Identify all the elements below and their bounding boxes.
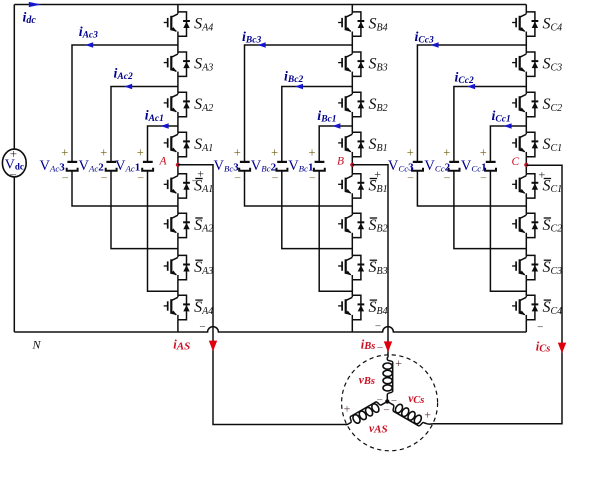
capacitor VBc1 plates (straight top plate, cup-shaped bottom plate) — [314, 162, 325, 171]
plus sign of capacitor VAc2 — [100, 146, 107, 160]
label SB3 — [369, 56, 388, 74]
capacitor VAc1 plates (straight top plate, cup-shaped bottom plate) — [142, 162, 153, 171]
node A (red dot) — [176, 163, 180, 167]
label SA3 — [194, 56, 213, 74]
label iBs — [361, 337, 376, 352]
minus sign of capacitor VBc2 — [271, 171, 278, 183]
IGBT switch SA3 with antiparallel diode — [164, 52, 190, 76]
current arrow iBc2 (blue, pointing left) — [295, 84, 303, 89]
svg-text:+: + — [480, 146, 487, 160]
svg-text:–: – — [377, 342, 384, 353]
plus sign of capacitor VCc3 — [407, 146, 414, 160]
node B (red dot) — [350, 163, 354, 167]
motor stator boundary (dashed circle) — [342, 355, 438, 451]
svg-text:iAS: iAS — [173, 338, 190, 353]
IGBT switch SC4 with antiparallel diode — [512, 12, 538, 36]
IGBT switch S&#772;C1 with antiparallel diode — [512, 174, 538, 198]
label VAc1 — [115, 158, 140, 174]
current arrow idc on top bus (blue, pointing right) — [29, 2, 41, 7]
plus sign of capacitor VCc2 — [443, 146, 450, 160]
minus sign of Vdc source — [9, 166, 17, 180]
minus sign of capacitor VAc2 — [100, 171, 107, 183]
plus sign of capacitor VBc2 — [271, 146, 278, 160]
label S&#772;B4 — [369, 299, 388, 317]
plus sign of capacitor VAc1 — [137, 146, 144, 160]
wire flying capacitor Ac2 branch (top tap y=86.5, bottom tap y=248.6) — [111, 87, 178, 249]
svg-text:A: A — [159, 156, 168, 168]
plus sign of capacitor VBc3 — [234, 146, 241, 160]
label iBc2 — [284, 70, 303, 86]
IGBT switch SB1 with antiparallel diode — [338, 132, 364, 156]
node C (red dot) — [524, 163, 528, 167]
current arrow iCs (red, pointing down) — [558, 343, 566, 354]
label iCc1 — [492, 109, 511, 125]
minus sign of winding vBs at star point — [376, 395, 383, 406]
label VCc1 — [461, 158, 487, 174]
label SA4 — [194, 16, 213, 34]
wire flying capacitor Bc1 branch (top tap y=126, bottom tap y=291.3) — [319, 126, 352, 291]
current arrow iCc1 (blue, pointing left) — [504, 123, 512, 128]
IGBT switch SC3 with antiparallel diode — [512, 52, 538, 76]
label VAc2 — [79, 158, 105, 174]
capacitor VAc3 plates (straight top plate, cup-shaped bottom plate) — [67, 162, 78, 171]
wire from Vdc source down to bottom bus — [13, 177, 15, 332]
IGBT switch S&#772;B2 with antiparallel diode — [338, 213, 364, 237]
label S&#772;C1 — [543, 177, 563, 195]
IGBT switch S&#772;C2 with antiparallel diode — [512, 213, 538, 237]
IGBT switch SB3 with antiparallel diode — [338, 52, 364, 76]
minus sign of capacitor VAc1 — [137, 171, 144, 183]
wire flying capacitor Cc2 branch (top tap y=86.5, bottom tap y=248.6) — [454, 87, 526, 249]
label SA1 — [194, 136, 213, 154]
minus sign of capacitor VBc3 — [234, 171, 241, 183]
label SB4 — [369, 16, 388, 34]
capacitor VCc1 plates (straight top plate, cup-shaped bottom plate) — [485, 162, 496, 171]
capacitor VCc3 plates (straight top plate, cup-shaped bottom plate) — [412, 162, 423, 171]
svg-text:+: + — [271, 146, 278, 160]
label S&#772;A3 — [194, 259, 213, 277]
IGBT switch S&#772;A2 with antiparallel diode — [164, 213, 190, 237]
wire top DC bus from Vdc to leg C — [14, 4, 526, 6]
minus sign of winding vCs at star point — [391, 395, 398, 406]
IGBT switch S&#772;A4 with antiparallel diode — [164, 295, 190, 319]
label VBc1 — [288, 158, 313, 174]
svg-text:+: + — [100, 146, 107, 160]
label iCc2 — [455, 71, 474, 87]
minus sign of capacitor VAc3 — [61, 171, 68, 183]
minus sign of winding vAs at star point — [383, 405, 390, 416]
label S&#772;B2 — [369, 217, 388, 235]
label SB1 — [369, 136, 388, 154]
svg-text:–: – — [370, 176, 377, 187]
wire phase B leg rail segments — [351, 5, 353, 333]
label S&#772;B3 — [369, 259, 388, 277]
wire phase C output: node C right then down and left to motor winding vCs — [433, 165, 562, 424]
minus sign of capacitor VCc1 — [480, 171, 487, 183]
svg-text:+: + — [309, 146, 316, 160]
IGBT switch SC1 with antiparallel diode — [512, 132, 538, 156]
label VCc3 — [388, 158, 414, 174]
IGBT switch S&#772;A1 with antiparallel diode — [164, 174, 190, 198]
svg-text:vCs: vCs — [408, 393, 424, 406]
label vAS — [369, 423, 388, 436]
plus sign near node A — [197, 167, 204, 181]
wire flying capacitor Bc2 branch (top tap y=86.5, bottom tap y=248.6) — [282, 87, 353, 249]
current arrow iCc3 (blue, pointing left) — [431, 42, 439, 47]
plus sign of capacitor VAc3 — [61, 146, 68, 160]
label VBc2 — [251, 158, 277, 174]
label iBc3 — [242, 30, 261, 46]
plus sign of capacitor VBc1 — [309, 146, 316, 160]
label VBc3 — [214, 158, 240, 174]
svg-text:vBs: vBs — [359, 374, 375, 387]
svg-text:vAS: vAS — [369, 423, 388, 436]
wire from top bus down to Vdc source — [13, 5, 15, 150]
IGBT switch SC2 with antiparallel diode — [512, 92, 538, 116]
IGBT switch S&#772;C3 with antiparallel diode — [512, 255, 538, 279]
label iAS — [173, 338, 190, 353]
plus sign of capacitor VCc1 — [480, 146, 487, 160]
wire phase B output: node B right then down to motor winding vBs — [352, 165, 388, 358]
minus sign near node A lower — [191, 176, 198, 187]
IGBT switch S&#772;B3 with antiparallel diode — [338, 255, 364, 279]
label iBc1 — [317, 109, 336, 125]
svg-text:–: – — [199, 321, 206, 332]
motor winding vAs (lower-left coil) — [346, 397, 389, 428]
current arrow iAS (red, pointing down) — [209, 341, 217, 352]
IGBT switch SB2 with antiparallel diode — [338, 92, 364, 116]
plus sign near node B — [374, 167, 381, 181]
motor winding vCs (lower-right coil) — [385, 398, 428, 429]
label VAc3 — [40, 158, 66, 174]
svg-text:–: – — [537, 322, 544, 333]
minus sign of capacitor VCc2 — [443, 171, 450, 183]
wire flying capacitor Ac3 branch (top tap y=45, bottom tap y=206) — [72, 45, 178, 206]
wire bottom DC bus (node N) with crossover hops over phase A and B output lines — [14, 327, 526, 332]
minus sign at bottom of leg C — [537, 322, 544, 333]
label S&#772;A1 — [194, 177, 213, 195]
plus sign of Vdc source — [10, 146, 17, 161]
svg-text:+: + — [61, 146, 68, 160]
label vBs — [359, 374, 375, 387]
current arrow iBc1 (blue, pointing left) — [332, 123, 340, 128]
wire stub from vAs coil to phase A wire — [346, 423, 350, 424]
IGBT switch S&#772;B4 with antiparallel diode — [338, 295, 364, 319]
label iAc2 — [114, 66, 133, 82]
svg-text:C: C — [512, 156, 520, 168]
svg-text:+: + — [395, 356, 402, 370]
current arrow iAc3 (blue, pointing left) — [85, 42, 93, 47]
DC source Vdc (ellipse) — [2, 149, 26, 177]
IGBT switch SB4 with antiparallel diode — [338, 12, 364, 36]
IGBT switch S&#772;A3 with antiparallel diode — [164, 255, 190, 279]
minus sign of capacitor VCc3 — [407, 171, 414, 183]
motor winding vBs (vertical coil) — [383, 357, 393, 401]
label S&#772;A4 — [194, 299, 213, 317]
svg-text:+: + — [10, 146, 17, 161]
svg-text:N: N — [32, 338, 42, 352]
label iAc3 — [79, 25, 98, 41]
capacitor VBc2 plates (straight top plate, cup-shaped bottom plate) — [277, 162, 288, 171]
svg-text:+: + — [344, 402, 351, 416]
wire flying capacitor Cc1 branch (top tap y=126, bottom tap y=291.3) — [490, 126, 526, 291]
label SC1 — [543, 136, 563, 154]
svg-text:+: + — [197, 167, 204, 181]
label SC4 — [543, 16, 563, 34]
minus sign at bottom of leg B — [375, 321, 382, 332]
svg-text:–: – — [391, 395, 398, 406]
svg-text:+: + — [539, 168, 546, 182]
svg-text:–: – — [375, 321, 382, 332]
current arrow iAc2 (blue, pointing left) — [124, 84, 132, 89]
wire flying capacitor Ac1 branch (top tap y=126, bottom tap y=291.3) — [148, 126, 178, 291]
IGBT switch S&#772;C4 with antiparallel diode — [512, 295, 538, 319]
wire phase C leg rail segments — [525, 5, 527, 333]
current arrow iBs (red, pointing down) — [384, 341, 392, 352]
svg-text:–: – — [9, 166, 17, 180]
label SC2 — [543, 96, 563, 114]
svg-text:+: + — [407, 146, 414, 160]
label iAc1 — [145, 109, 164, 125]
label Vdc inside source — [5, 158, 24, 173]
svg-text:+: + — [137, 146, 144, 160]
label SA2 — [194, 96, 213, 114]
svg-text:+: + — [443, 146, 450, 160]
star point node of motor — [385, 399, 389, 403]
plus sign of winding vAs — [344, 402, 351, 416]
minus sign at bottom of leg A — [199, 321, 206, 332]
minus sign left of iBs arrow — [377, 342, 384, 353]
svg-text:+: + — [234, 146, 241, 160]
minus sign of capacitor VBc1 — [309, 171, 316, 183]
svg-text:–: – — [376, 395, 383, 406]
plus sign of winding vBs — [395, 356, 402, 370]
wire phase A output: node A right then down to motor, under bus hop — [178, 165, 347, 425]
label S&#772;C3 — [543, 259, 563, 277]
label vCs — [408, 393, 424, 406]
label N (negative dc rail node) — [32, 338, 42, 352]
label node A — [159, 156, 168, 168]
label iCs — [536, 340, 551, 355]
svg-text:–: – — [383, 405, 390, 416]
IGBT switch SA4 with antiparallel diode — [164, 12, 190, 36]
IGBT switch S&#772;B1 with antiparallel diode — [338, 174, 364, 198]
svg-text:B: B — [337, 156, 344, 168]
label S&#772;A2 — [194, 217, 213, 235]
svg-text:–: – — [191, 176, 198, 187]
label node C — [512, 156, 520, 168]
current arrow iCc2 (blue, pointing left) — [467, 84, 475, 89]
plus sign near node C — [539, 168, 546, 182]
label S&#772;C4 — [543, 299, 563, 317]
svg-text:+: + — [424, 408, 431, 422]
wire flying capacitor Bc3 branch (top tap y=45, bottom tap y=206) — [245, 45, 353, 206]
label VCc2 — [424, 158, 450, 174]
label idc — [23, 11, 37, 27]
label S&#772;C2 — [543, 217, 563, 235]
capacitor VBc3 plates (straight top plate, cup-shaped bottom plate) — [239, 162, 250, 171]
current arrow iBc3 (blue, pointing left) — [258, 42, 266, 47]
plus sign of winding vCs — [424, 408, 431, 422]
wire flying capacitor Cc3 branch (top tap y=45, bottom tap y=206) — [417, 45, 526, 206]
wire phase A leg rail segments — [177, 5, 179, 333]
wire stub from vCs coil to phase C wire — [425, 423, 432, 424]
IGBT switch SA2 with antiparallel diode — [164, 92, 190, 116]
label iCc3 — [415, 30, 434, 46]
label SC3 — [543, 56, 563, 74]
minus sign near node B lower — [370, 176, 377, 187]
IGBT switch SA1 with antiparallel diode — [164, 132, 190, 156]
label node B — [337, 156, 344, 168]
label S&#772;B1 — [369, 177, 388, 195]
capacitor VAc2 plates (straight top plate, cup-shaped bottom plate) — [106, 162, 117, 171]
current arrow iAc1 (blue, pointing left) — [161, 123, 169, 128]
label SB2 — [369, 96, 388, 114]
capacitor VCc2 plates (straight top plate, cup-shaped bottom plate) — [449, 162, 460, 171]
